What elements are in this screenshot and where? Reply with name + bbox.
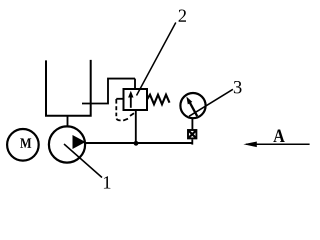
motor label M — [20, 138, 31, 147]
gauge 3 circle — [180, 93, 205, 118]
wire pump suction — [67, 116, 69, 127]
arrow A head — [243, 142, 256, 148]
relief valve flow arrow — [130, 96, 132, 108]
gauge needle — [190, 102, 198, 116]
pump circle 1 — [49, 126, 85, 162]
junction dot — [134, 141, 139, 146]
relief valve spring — [147, 95, 170, 105]
leader line 1 — [64, 144, 102, 178]
label 2 — [179, 10, 186, 22]
pilot line stub — [116, 98, 123, 100]
leader line 3 — [189, 89, 233, 116]
wire valve inlet — [135, 110, 137, 144]
wire main pressure line — [85, 142, 192, 144]
wire valve outlet — [134, 79, 136, 89]
pilot line dashed — [116, 99, 134, 121]
arrow A line — [246, 143, 310, 145]
wire tank return stepped — [82, 79, 135, 104]
label 1 — [104, 176, 111, 188]
wire below measuring point — [191, 139, 193, 144]
label 3 — [234, 81, 242, 93]
tank T1 — [46, 60, 91, 116]
label A — [273, 129, 284, 142]
measuring point square — [188, 130, 196, 138]
motor M circle — [7, 129, 39, 161]
relief valve U2 body — [124, 89, 148, 110]
pump triangle — [73, 135, 86, 149]
wire gauge connector — [191, 118, 193, 129]
leader line 2 — [137, 23, 176, 96]
